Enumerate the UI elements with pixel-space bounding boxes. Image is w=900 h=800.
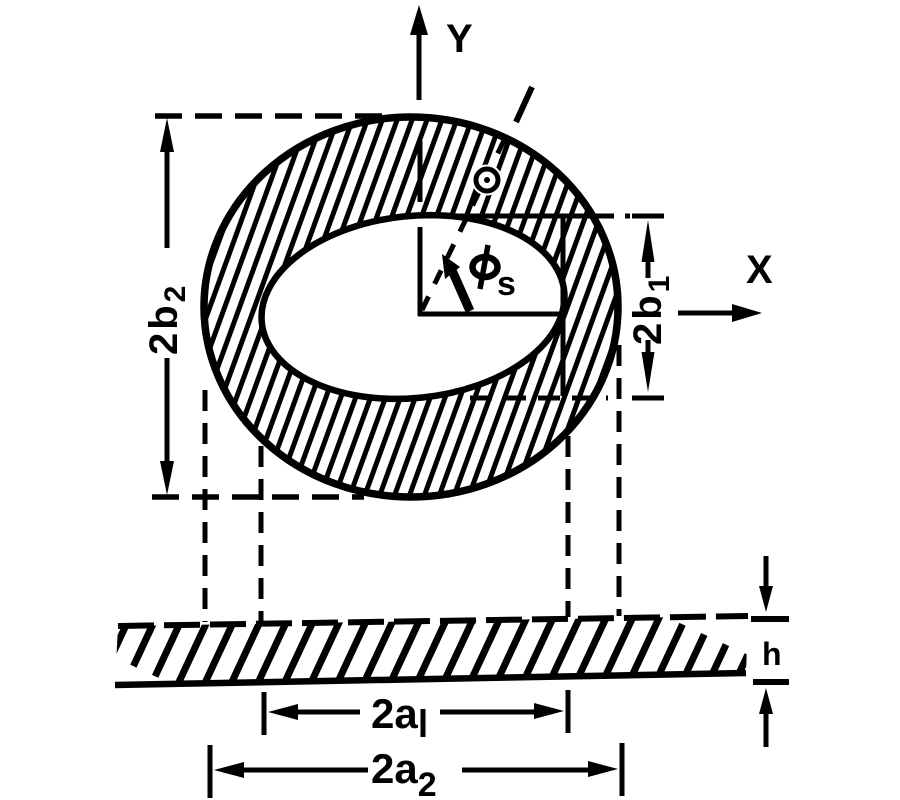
extension bar top right xyxy=(632,214,664,219)
dimension 2a2 end ticks xyxy=(210,743,622,798)
leader slash above ring xyxy=(516,87,532,122)
Y-axis dash through hatched ring xyxy=(418,141,423,202)
dashed extension line at bottom of inner ellipse xyxy=(470,396,608,401)
angle arrow for phi_s xyxy=(442,254,470,311)
svg-text:Y: Y xyxy=(446,17,473,61)
outer ellipse (semi-axes a2 b2) xyxy=(204,117,618,497)
dimension arrows 2b1 xyxy=(642,220,655,392)
h top tick bar xyxy=(751,616,789,622)
dimension 2a1 end ticks xyxy=(264,690,568,735)
dashed extension line at bottom of outer ellipse xyxy=(152,494,364,500)
svg-text:2a: 2a xyxy=(371,690,418,737)
dashed extension at top of inner ellipse (right) xyxy=(596,214,630,219)
dimension 2a2 arrows xyxy=(214,761,618,778)
label 2a1 xyxy=(371,690,423,737)
svg-text:h: h xyxy=(762,636,782,672)
inner-ellipse bounding box right edge xyxy=(561,216,566,396)
svg-text:s: s xyxy=(497,265,516,303)
dimension arrows 2b2 xyxy=(160,118,174,495)
center horizontal reference line xyxy=(418,312,559,317)
svg-text:X: X xyxy=(746,248,773,292)
dimension 2a1 arrows xyxy=(268,703,564,720)
dashed extension line at top of outer ellipse xyxy=(155,113,395,119)
extension bar bottom right xyxy=(632,396,664,401)
dashed radial line at angle phi_s xyxy=(422,128,510,310)
dimension h lower arrow xyxy=(759,688,773,747)
X axis arrow xyxy=(678,304,762,322)
hatching of dielectric slab xyxy=(68,391,856,800)
h bottom tick bar xyxy=(753,679,789,685)
center vertical reference line xyxy=(418,227,423,316)
slab top edge (dashed) xyxy=(118,616,748,626)
hatching of elliptical ring cross-section xyxy=(107,0,725,629)
slab bottom edge xyxy=(115,673,746,685)
Y axis arrow xyxy=(410,5,428,100)
inner ellipse (hole, semi-axes a1 b1) xyxy=(252,201,573,414)
dashed projection line, outer ellipse left xyxy=(203,390,208,622)
dashed projection line, inner ellipse left xyxy=(259,446,264,621)
label phi_s xyxy=(473,245,516,303)
dashed projection line, inner ellipse right xyxy=(566,436,571,617)
dimension h upper arrow xyxy=(759,556,773,612)
inner-ellipse top tangent line xyxy=(406,214,592,219)
slot position marker circle xyxy=(472,165,503,196)
dashed projection line, outer ellipse right xyxy=(617,345,622,616)
